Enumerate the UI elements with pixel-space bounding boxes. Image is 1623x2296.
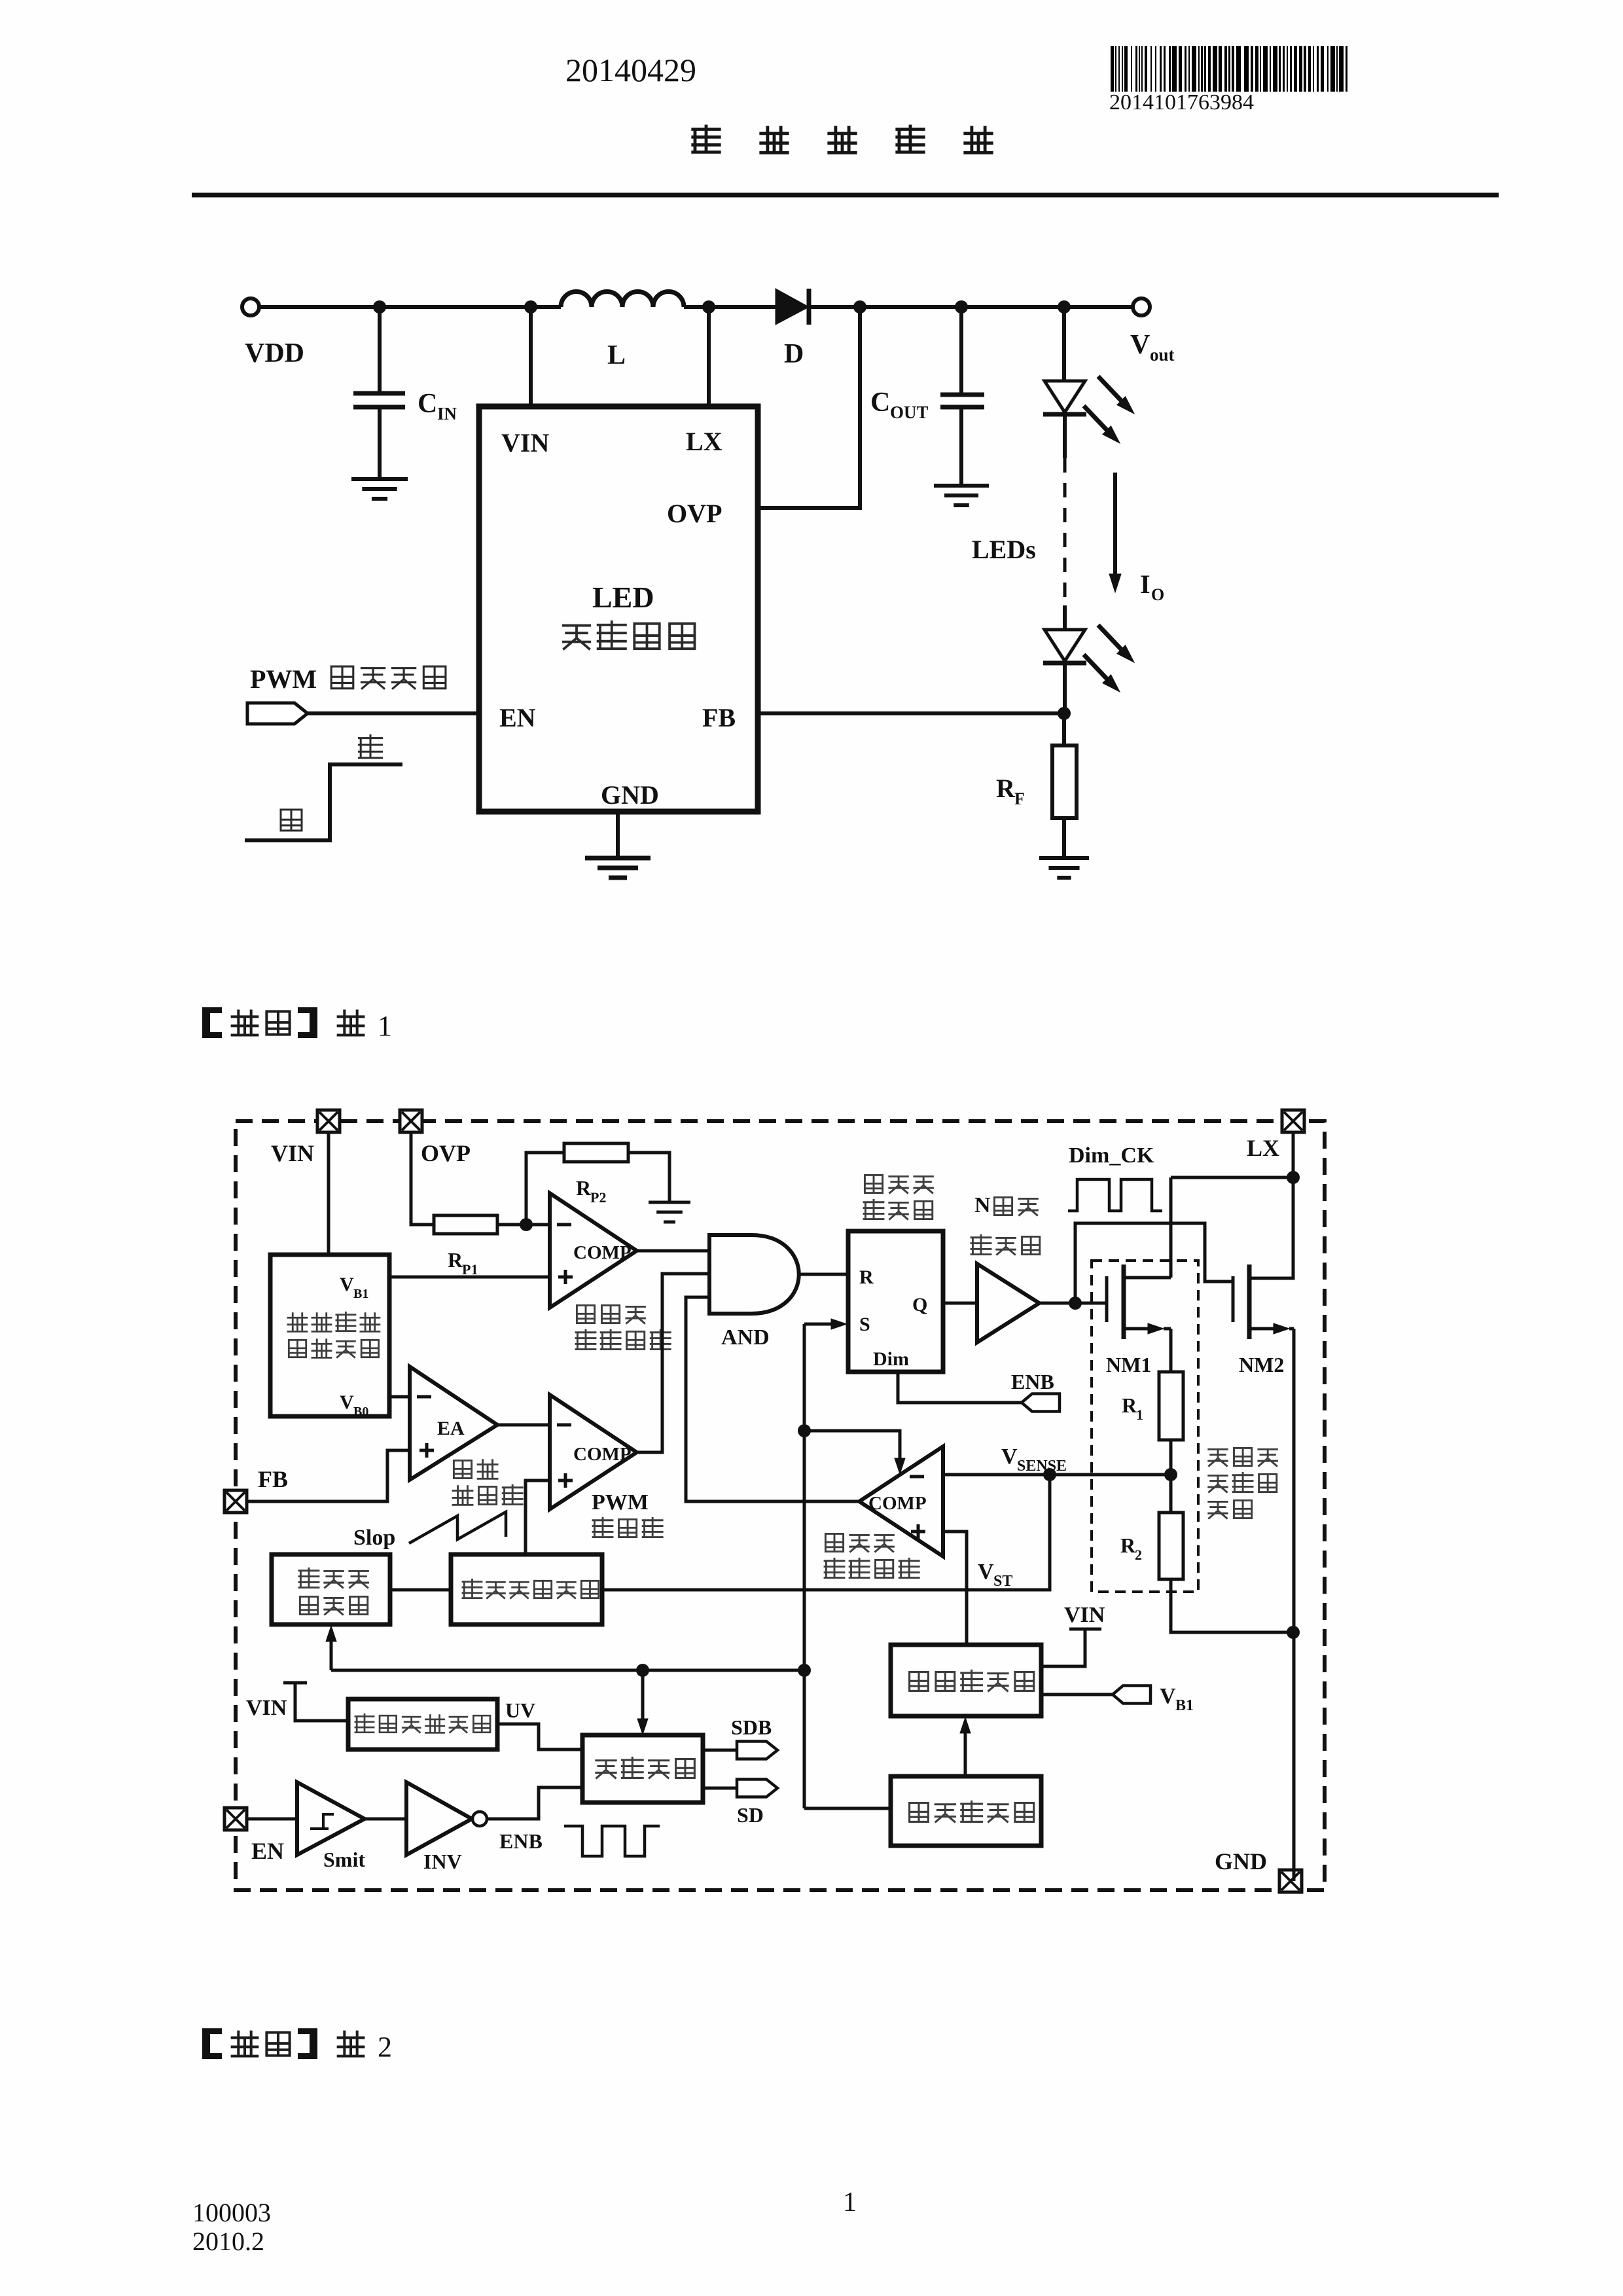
wire oscillator to latch S with arrow — [804, 1323, 839, 1326]
svg-text:100003: 100003 — [192, 2198, 271, 2227]
transistor NM2 — [1232, 1276, 1235, 1322]
svg-text:2: 2 — [1135, 1547, 1142, 1563]
svg-text:IN: IN — [437, 404, 457, 423]
wire NM2 source down to GND pad — [1293, 1329, 1296, 1881]
wire LX down to NM2 drain — [1251, 1177, 1293, 1278]
svg-text:Slop: Slop — [353, 1526, 395, 1550]
dashed box 电感电流检测模块 — [1092, 1261, 1198, 1592]
wire FB — [760, 711, 1064, 715]
wire LED2 to FB node — [1063, 663, 1067, 713]
wire EN — [308, 711, 479, 715]
pad LX — [1282, 1110, 1304, 1132]
wire OVP pad to RP1 — [411, 1132, 434, 1225]
diode D — [776, 289, 809, 325]
PWM input flag — [247, 703, 308, 724]
chip box LED driver — [479, 406, 758, 812]
wire Vsense — [943, 1473, 1171, 1477]
svg-text:AND: AND — [721, 1325, 770, 1350]
flag SD — [737, 1780, 777, 1797]
label 过流保护比较器 — [825, 1534, 843, 1551]
comparator COMP3 OCP (points left) — [859, 1446, 943, 1556]
svg-text:V: V — [1130, 330, 1150, 360]
label 误差放大器 — [454, 1460, 471, 1478]
svg-text:R: R — [996, 774, 1016, 803]
on/off step waveform — [245, 764, 402, 840]
node Vsense divider — [1164, 1468, 1177, 1481]
svg-text:2: 2 — [378, 2031, 392, 2063]
wire clock to COMP3 with arrow — [804, 1431, 900, 1462]
wire SDB — [703, 1749, 737, 1752]
wire R2 bottom to ground rail — [1171, 1579, 1293, 1632]
svg-text:P2: P2 — [590, 1189, 606, 1206]
svg-text:EN: EN — [251, 1838, 284, 1864]
svg-text:GND: GND — [1215, 1848, 1267, 1874]
svg-text:GND: GND — [601, 780, 659, 810]
wire latch Dim to ENB flag — [898, 1372, 1022, 1403]
schmitt trigger Smit — [297, 1782, 365, 1855]
wire OVP net — [760, 307, 860, 508]
node clock to sleep — [636, 1664, 649, 1677]
node COUT junction — [955, 300, 968, 314]
VIN tee symbol — [1069, 1628, 1101, 1631]
svg-text:OVP: OVP — [667, 499, 722, 528]
oscillator clock rail — [331, 1669, 804, 1672]
svg-text:2010.2: 2010.2 — [192, 2227, 264, 2256]
svg-text:COMP: COMP — [868, 1493, 927, 1514]
wire LX pin — [702, 300, 715, 314]
block 欠压锁定电路 — [348, 1699, 497, 1749]
svg-text:EN: EN — [499, 703, 536, 732]
svg-text:ST: ST — [993, 1573, 1012, 1590]
ground chip — [585, 856, 651, 861]
svg-text:N: N — [974, 1193, 991, 1217]
svg-text:SDB: SDB — [731, 1715, 772, 1739]
node OVP tap — [853, 300, 866, 314]
svg-text:FB: FB — [258, 1466, 288, 1492]
figure label 图2 — [202, 2028, 210, 2059]
pad EN — [224, 1808, 247, 1830]
svg-text:EA: EA — [437, 1418, 465, 1439]
svg-text:LEDs: LEDs — [972, 535, 1036, 564]
header rule — [192, 193, 1499, 198]
svg-text:Dim_CK: Dim_CK — [1069, 1143, 1154, 1168]
node clock to OCP — [798, 1424, 811, 1437]
svg-text:VIN: VIN — [501, 428, 549, 457]
flag VB1 — [1041, 1693, 1113, 1696]
svg-text:20140429: 20140429 — [565, 52, 696, 88]
svg-text:SENSE: SENSE — [1017, 1458, 1067, 1475]
svg-text:COMP: COMP — [573, 1242, 632, 1263]
wire RP1 to comparator — [497, 1223, 550, 1227]
wire gate drive to NM2 — [1075, 1223, 1233, 1303]
svg-text:NM2: NM2 — [1239, 1353, 1284, 1376]
svg-text:V: V — [340, 1274, 354, 1295]
wire dashed LED string — [1063, 414, 1067, 458]
svg-text:2014101763984: 2014101763984 — [1109, 90, 1254, 115]
pad VIN — [317, 1110, 340, 1132]
svg-text:B1: B1 — [1175, 1697, 1194, 1714]
svg-text:Q: Q — [912, 1294, 927, 1316]
ground CIN — [351, 477, 408, 481]
ground COUT — [934, 484, 989, 488]
sawtooth waveform — [409, 1512, 506, 1543]
svg-text:L: L — [607, 340, 626, 370]
LED D2 — [1044, 630, 1085, 661]
block 调光锁存模块 RS latch — [848, 1231, 943, 1372]
wire AND out to latch R — [799, 1273, 848, 1276]
svg-text:R: R — [1120, 1534, 1136, 1557]
svg-text:O: O — [1151, 585, 1164, 604]
svg-text:OVP: OVP — [421, 1140, 471, 1166]
wire inductor to diode — [684, 305, 776, 309]
barcode — [1111, 46, 1114, 92]
LED D2 emission arrows — [1098, 625, 1123, 651]
VIN tee symbol UVLO — [283, 1681, 307, 1685]
ground RP2 — [649, 1201, 690, 1204]
capacitor CIN — [378, 307, 382, 391]
figure label 图1 — [202, 1007, 210, 1038]
svg-text:SD: SD — [737, 1803, 764, 1827]
flag SDB — [737, 1742, 777, 1759]
terminal Vout — [1133, 298, 1150, 315]
wire NM1 source to R1 — [1169, 1329, 1173, 1372]
wire to LED1 — [1062, 307, 1066, 381]
wire Vsense branch to slope comp — [602, 1475, 1050, 1590]
inductor L — [561, 292, 684, 308]
wire latch Q to driver — [943, 1302, 977, 1305]
comparator COMP2 PWM — [550, 1395, 637, 1509]
wire VB0 to EA — [389, 1395, 410, 1399]
page title 说明书附图 — [693, 126, 719, 152]
ground RF — [1039, 856, 1089, 860]
wire COMP1 output to AND — [637, 1249, 709, 1253]
block 斜坡电压模块 — [272, 1554, 390, 1624]
transistor NM1 — [1105, 1276, 1109, 1322]
LED D1 emission arrows — [1098, 376, 1123, 403]
chip internal dashed border — [236, 1121, 1325, 1890]
comparator COMP1 OVP — [550, 1193, 637, 1308]
wire VST — [943, 1532, 967, 1645]
Dim_CK waveform — [1068, 1179, 1162, 1211]
svg-text:VIN: VIN — [1064, 1603, 1105, 1627]
svg-text:LX: LX — [1247, 1135, 1279, 1161]
capacitor COUT — [959, 307, 963, 393]
wire COMP2 out to AND — [637, 1274, 709, 1452]
label 开 — [359, 736, 382, 758]
wire ramp to slope comp — [390, 1588, 451, 1592]
pad OVP — [400, 1110, 422, 1132]
svg-text:S: S — [859, 1314, 870, 1335]
block 振荡器模块 — [891, 1776, 1041, 1846]
ENB waveform — [564, 1826, 660, 1856]
svg-text:V: V — [340, 1391, 354, 1413]
svg-text:C: C — [418, 389, 437, 419]
error amplifier EA — [410, 1367, 497, 1480]
label 电感电流检测模块 — [1209, 1449, 1228, 1465]
svg-text:Smit: Smit — [323, 1848, 365, 1871]
svg-text:V: V — [978, 1560, 994, 1584]
block 软启动电路 — [891, 1645, 1041, 1716]
label 关 — [281, 810, 302, 831]
wire VB1 to COMP1 — [389, 1276, 550, 1279]
svg-text:V: V — [1001, 1444, 1018, 1469]
svg-text:VIN: VIN — [246, 1696, 287, 1720]
svg-text:F: F — [1014, 789, 1025, 808]
resistor R1 — [1159, 1372, 1183, 1440]
svg-text:1: 1 — [1136, 1407, 1143, 1423]
svg-text:UV: UV — [505, 1698, 535, 1722]
pad GND — [1279, 1870, 1302, 1892]
svg-text:PWM: PWM — [592, 1490, 649, 1515]
inverter INV — [406, 1782, 472, 1855]
node ground rail junction — [1287, 1626, 1300, 1639]
svg-text:1: 1 — [378, 1010, 392, 1042]
svg-text:OUT: OUT — [890, 403, 929, 422]
svg-text:VIN: VIN — [271, 1140, 314, 1166]
svg-text:P1: P1 — [462, 1261, 478, 1278]
wire inverter to sleep — [487, 1787, 582, 1819]
svg-text:1: 1 — [843, 2187, 857, 2217]
block 斜坡补偿模块 — [451, 1554, 602, 1624]
resistor R2 — [1169, 1475, 1173, 1513]
block 休眠模块 — [582, 1735, 703, 1803]
svg-text:Dim: Dim — [873, 1348, 909, 1370]
resistor RP2 — [564, 1143, 628, 1162]
current IO arrow — [1113, 473, 1117, 579]
svg-text:D: D — [784, 339, 804, 369]
arrow into sleep block — [641, 1670, 645, 1728]
svg-text:out: out — [1150, 345, 1175, 365]
node junction CIN — [373, 300, 386, 314]
svg-text:R: R — [576, 1176, 592, 1200]
svg-text:ENB: ENB — [1011, 1370, 1054, 1393]
svg-text:I: I — [1140, 569, 1150, 599]
wire EN pad to schmitt — [247, 1818, 297, 1821]
wire chip GND — [616, 812, 620, 856]
svg-text:R: R — [859, 1266, 874, 1288]
resistor RP1 — [434, 1215, 497, 1234]
svg-text:INV: INV — [423, 1850, 462, 1873]
node RP junction — [520, 1218, 533, 1231]
wire buffer out to NM1 gate — [1039, 1302, 1107, 1305]
svg-text:B0: B0 — [353, 1405, 368, 1419]
svg-text:R: R — [448, 1248, 463, 1272]
driver buffer N型驱动模块 — [977, 1264, 1039, 1342]
svg-text:LX: LX — [686, 427, 722, 456]
pad FB — [224, 1490, 247, 1513]
svg-text:FB: FB — [702, 703, 736, 732]
wire RP2 to ground — [628, 1153, 669, 1201]
label 过压保护比较器 — [577, 1305, 594, 1323]
wire NM1 drain to LX rail — [1169, 1177, 1173, 1278]
wire VIN pad to bias block — [327, 1132, 330, 1255]
AND gate — [709, 1235, 799, 1314]
wire oscillator output — [804, 1807, 891, 1810]
wire oscillator to soft start arrow — [964, 1724, 967, 1776]
wire SD — [703, 1787, 737, 1790]
svg-text:V: V — [1160, 1684, 1176, 1708]
svg-text:R: R — [1122, 1393, 1137, 1417]
node clock rail oscillator — [798, 1664, 811, 1677]
wire COMP3 out to AND — [686, 1297, 859, 1501]
oscillator vertical rail — [803, 1324, 806, 1808]
flag ENB latch — [1022, 1394, 1060, 1412]
wire top rail left — [259, 305, 561, 309]
wire COMP2 plus input to slope comp — [526, 1480, 550, 1554]
resistor RF — [1062, 713, 1066, 745]
svg-text:NM1: NM1 — [1106, 1353, 1151, 1376]
node VDD terminal — [242, 298, 259, 315]
arrow into ramp block — [330, 1634, 333, 1670]
wire schmitt to inverter — [365, 1818, 406, 1821]
svg-text:C: C — [870, 387, 890, 418]
wire LX rail — [1292, 1132, 1295, 1177]
node LED string top — [1058, 300, 1071, 314]
wire junction up to RP2 — [526, 1153, 564, 1225]
wire FB pad to EA — [247, 1450, 410, 1501]
wire EA out to COMP2 — [497, 1424, 550, 1427]
wire UVLO to sleep block — [497, 1724, 582, 1749]
wire R1 to Vsense node — [1169, 1440, 1173, 1475]
node gate drive junction — [1069, 1297, 1082, 1310]
svg-text:COMP: COMP — [573, 1444, 632, 1465]
node FB junction — [1058, 707, 1071, 720]
wire diode to Vout — [809, 305, 1133, 309]
svg-text:VDD: VDD — [245, 338, 304, 368]
block 基准源与偏置模块 — [270, 1255, 389, 1416]
svg-text:B1: B1 — [353, 1287, 368, 1301]
svg-text:LED: LED — [592, 581, 654, 614]
LED D1 — [1044, 381, 1085, 412]
svg-text:PWM: PWM — [250, 664, 317, 694]
svg-text:ENB: ENB — [499, 1829, 543, 1853]
wire VIN pin — [524, 300, 537, 314]
